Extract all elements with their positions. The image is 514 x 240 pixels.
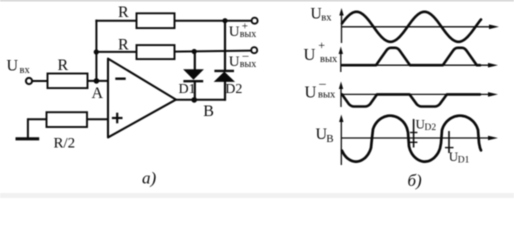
svg-text:R: R bbox=[118, 36, 129, 53]
svg-text:а): а) bbox=[142, 169, 157, 188]
wire D2 branch upper bbox=[224, 21, 226, 70]
node B bbox=[191, 97, 214, 120]
waveform U-vyh rectified troughs bbox=[342, 94, 480, 106]
svg-text:B: B bbox=[326, 133, 333, 145]
svg-text:вых: вых bbox=[320, 54, 338, 65]
svg-text:вых: вых bbox=[240, 59, 256, 70]
diode D2 bbox=[214, 71, 242, 97]
svg-text:A: A bbox=[92, 85, 104, 102]
label U+vyh bbox=[304, 38, 339, 65]
wire op-amp output to node B bbox=[176, 99, 226, 101]
resistor R/2 bbox=[47, 112, 88, 151]
svg-text:R: R bbox=[118, 4, 129, 21]
axis 2 (U+vyh) bbox=[339, 47, 498, 73]
svg-text:+: + bbox=[318, 38, 325, 52]
svg-text:U: U bbox=[305, 82, 317, 101]
ground bbox=[16, 118, 40, 139]
svg-text:вх: вх bbox=[20, 65, 31, 76]
wire D2 branch lower bbox=[224, 81, 226, 100]
top feedback wire left bbox=[95, 20, 136, 22]
svg-text:вых: вых bbox=[240, 29, 256, 40]
svg-text:D1: D1 bbox=[458, 155, 470, 165]
node D1 junction bbox=[192, 49, 197, 54]
svg-text:D2: D2 bbox=[425, 123, 437, 133]
marker U_D1 bbox=[445, 131, 470, 165]
label U_vx bbox=[311, 5, 333, 23]
svg-text:–: – bbox=[318, 76, 326, 91]
second feedback wire right bbox=[175, 51, 252, 52]
wire D1 branch lower bbox=[194, 81, 196, 100]
label U_vx input voltage bbox=[7, 58, 31, 77]
resistor R (top feedback) bbox=[118, 4, 175, 28]
node top output junction bbox=[222, 18, 227, 23]
axis 1 (U_vx) bbox=[339, 8, 499, 43]
diode D1 bbox=[179, 70, 204, 97]
axis 4 (U_B) bbox=[339, 115, 498, 166]
op-amp U1 bbox=[108, 59, 176, 138]
svg-text:U: U bbox=[311, 5, 322, 22]
svg-text:U: U bbox=[229, 24, 240, 40]
waveform U_B op-amp output bbox=[342, 116, 481, 162]
wire node A up to feedback bbox=[95, 20, 97, 81]
svg-text:R/2: R/2 bbox=[54, 136, 76, 152]
svg-text:вх: вх bbox=[321, 13, 332, 24]
svg-text:U: U bbox=[229, 54, 240, 70]
label U_B bbox=[316, 126, 334, 145]
top feedback wire right bbox=[175, 20, 252, 22]
wire D1 branch upper bbox=[194, 52, 196, 71]
waveform U_vx sine bbox=[342, 12, 481, 42]
input terminal bbox=[26, 78, 32, 84]
svg-text:B: B bbox=[203, 103, 214, 120]
label U-vyh bbox=[305, 76, 337, 102]
node junction feedback bbox=[94, 49, 99, 54]
second feedback wire left bbox=[96, 51, 136, 53]
terminal U+ output bbox=[252, 18, 258, 24]
waveform U+vyh rectified humps bbox=[342, 48, 480, 65]
wire input to R bbox=[32, 80, 47, 82]
wire R to op-amp minus input bbox=[88, 80, 109, 82]
marker U_D2 bbox=[410, 117, 436, 148]
svg-text:вых: вых bbox=[318, 90, 336, 101]
svg-text:U: U bbox=[304, 45, 316, 64]
svg-text:R: R bbox=[58, 57, 69, 74]
node A bbox=[92, 78, 104, 102]
terminal U- output bbox=[251, 47, 257, 53]
svg-text:D2: D2 bbox=[225, 82, 242, 97]
svg-text:D1: D1 bbox=[179, 82, 196, 97]
svg-text:б): б) bbox=[408, 171, 423, 190]
wire plus input bbox=[87, 118, 109, 120]
label U-vyh bbox=[229, 48, 257, 70]
axis 3 (U-vyh) bbox=[339, 82, 498, 108]
wire R/2 to ground bbox=[28, 118, 47, 120]
svg-text:U: U bbox=[7, 58, 19, 75]
resistor R (second feedback) bbox=[118, 36, 175, 59]
label U+vyh bbox=[229, 21, 257, 41]
resistor R (input) bbox=[48, 57, 88, 88]
